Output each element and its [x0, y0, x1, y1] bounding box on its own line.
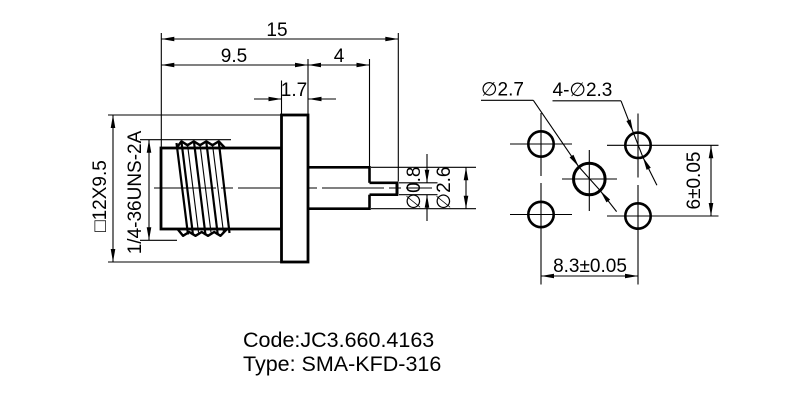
svg-text:8.3±0.05: 8.3±0.05	[553, 256, 627, 277]
thread hatch diagonals	[177, 142, 230, 235]
contact pin	[370, 182, 399, 196]
front view: center hole	[562, 150, 617, 211]
centerline of side view	[154, 187, 432, 189]
svg-text:Type: SMA-KFD-316: Type: SMA-KFD-316	[243, 352, 441, 376]
front view: hole bottom-left	[510, 183, 572, 285]
dim 4	[308, 46, 370, 166]
dim 1.7	[254, 80, 336, 114]
svg-text:15: 15	[266, 20, 287, 41]
connector body outline	[161, 148, 282, 229]
stem (dielectric bushing)	[308, 166, 370, 210]
thread crest top	[176, 141, 226, 148]
svg-text:1/4-36UNS-2A: 1/4-36UNS-2A	[125, 130, 146, 254]
flange	[282, 115, 309, 262]
label 4x dia 2.3 with leader	[553, 80, 657, 185]
dim 9.5	[161, 46, 308, 114]
svg-text:□12X9.5: □12X9.5	[90, 160, 111, 232]
dim 15	[161, 20, 398, 182]
dim square 12x9.5	[90, 115, 282, 262]
front view: hole bottom-right	[607, 185, 719, 285]
front view: hole top-right	[607, 114, 719, 178]
svg-text:∅2.6: ∅2.6	[434, 167, 455, 210]
svg-text:4-∅2.3: 4-∅2.3	[553, 80, 613, 101]
svg-text:4: 4	[334, 46, 345, 67]
svg-text:9.5: 9.5	[221, 46, 247, 67]
thread spec dim 1/4-36UNS-2A	[125, 130, 231, 254]
dim 6 +/- 0.05	[684, 145, 713, 216]
svg-text:Code:JC3.660.4163: Code:JC3.660.4163	[243, 328, 434, 352]
front view: hole top-left	[510, 113, 572, 176]
svg-text:6±0.05: 6±0.05	[684, 152, 705, 210]
dim dia 0.8	[399, 154, 438, 221]
label dia 2.7 with leader	[481, 80, 617, 212]
dim 8.3 +/- 0.05	[541, 256, 638, 278]
dim dia 2.6	[371, 167, 476, 210]
svg-text:1.7: 1.7	[281, 80, 307, 101]
thread crest bottom	[178, 229, 228, 236]
svg-text:∅0.8: ∅0.8	[404, 167, 425, 210]
svg-text:∅2.7: ∅2.7	[481, 80, 524, 101]
